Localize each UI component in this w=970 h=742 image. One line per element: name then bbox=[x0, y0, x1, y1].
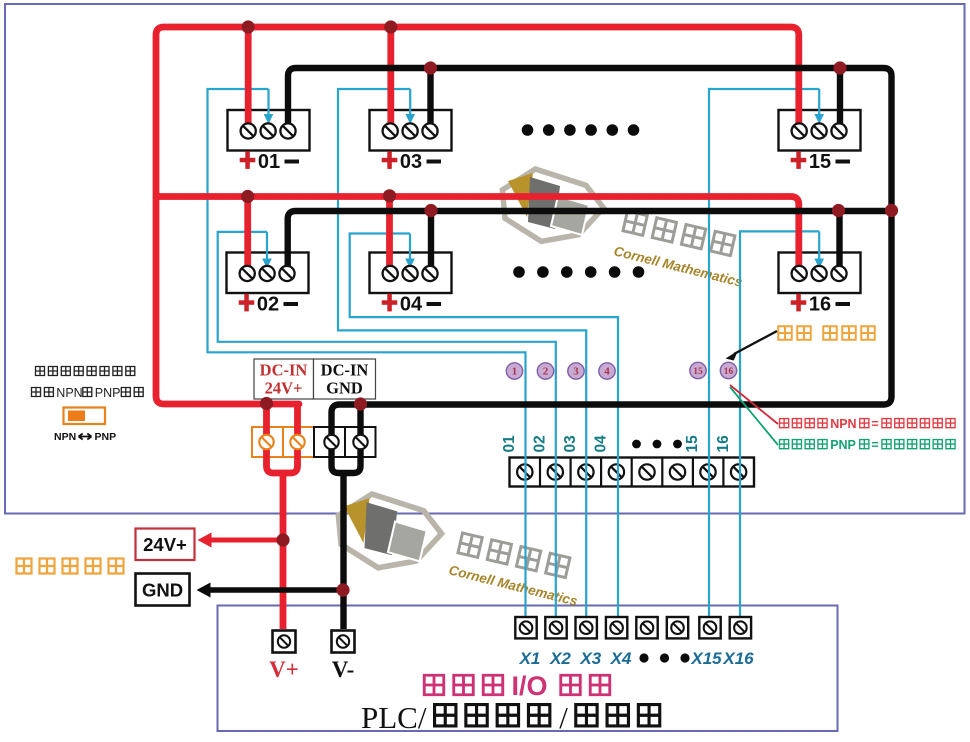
black drop sensor 15 bbox=[837, 68, 843, 128]
circled wire number 15 bbox=[690, 362, 706, 378]
strip ellipsis dots bbox=[632, 440, 641, 449]
svg-text:15: 15 bbox=[684, 435, 701, 453]
sensor 15 label + bbox=[791, 151, 807, 169]
svg-text:16: 16 bbox=[809, 294, 831, 316]
sensor 01 label minus bbox=[285, 160, 300, 164]
label: input indicator LED (orange) bbox=[777, 325, 875, 340]
svg-text:I/O: I/O bbox=[512, 671, 548, 701]
svg-text:01: 01 bbox=[258, 151, 280, 173]
sensor terminal block 01 outline bbox=[228, 110, 310, 151]
junction 24V+ tap to supply bbox=[276, 533, 289, 546]
junction GND bus / sensor 15 drop bbox=[833, 61, 846, 74]
GND box bbox=[136, 574, 190, 606]
red drop to sensor 02 bbox=[244, 197, 251, 271]
sensor 16 screw terminals (+ / signal / -) bbox=[792, 266, 847, 281]
junction +24V bus / sensor 01 drop bbox=[242, 20, 255, 33]
watermark text bottom: 康泰科技 bbox=[456, 531, 572, 579]
V+ supply terminal bbox=[273, 631, 296, 653]
sensor terminal block 02 outline bbox=[227, 253, 309, 294]
junction GND bus2 / sensor 16 drop bbox=[832, 204, 845, 217]
signal wire 02 bbox=[218, 232, 556, 617]
black wire down to V- bbox=[340, 471, 346, 629]
svg-text:04: 04 bbox=[400, 294, 423, 316]
svg-text:02: 02 bbox=[532, 435, 549, 452]
svg-text:3: 3 bbox=[573, 366, 579, 378]
note: switch selection line 1 bbox=[35, 366, 136, 376]
sensor 15 label minus bbox=[836, 160, 851, 164]
watermark logo (bottom) bbox=[338, 494, 441, 568]
sensor 04 label minus bbox=[427, 302, 442, 306]
PLC / industrial PC box outline bbox=[218, 606, 838, 732]
svg-text:Cornell Mathematics: Cornell Mathematics bbox=[447, 562, 579, 609]
svg-text:16: 16 bbox=[724, 367, 734, 377]
svg-text:V-: V- bbox=[332, 657, 355, 682]
svg-text:1: 1 bbox=[512, 366, 518, 378]
svg-text:4: 4 bbox=[604, 366, 610, 378]
label: connect switching power (orange) bbox=[15, 557, 124, 574]
signal wire 01 bbox=[208, 89, 526, 617]
terminal strip screw 02 bbox=[548, 464, 563, 479]
circled wire number 2 bbox=[537, 363, 553, 379]
sensor 01 screw terminals (+ / signal / -) bbox=[241, 123, 296, 138]
title: input type I/O module (magenta) bbox=[423, 671, 611, 701]
svg-text:GND: GND bbox=[326, 379, 363, 398]
arrow from LED label to wire bbox=[734, 331, 777, 354]
PLC input terminal X16 bbox=[730, 617, 751, 638]
circled wire number 3 bbox=[568, 363, 584, 379]
signal wire 16 arrow bbox=[818, 231, 820, 260]
red drop to sensor 01 bbox=[245, 27, 252, 128]
signal wire 15 arrow bbox=[818, 89, 820, 116]
circled wire number 1 bbox=[506, 363, 522, 379]
svg-text:2: 2 bbox=[543, 366, 549, 378]
sensor 01 label + bbox=[240, 151, 256, 169]
watermark text top: 康泰科技 bbox=[621, 209, 737, 257]
orange 24V block screw terminals bbox=[259, 435, 273, 449]
junction GND bus / sensor 03 drop bbox=[424, 61, 437, 74]
DC-IN 24V+ label box bbox=[254, 359, 314, 399]
sensor 02 label + bbox=[239, 294, 255, 312]
svg-text:16: 16 bbox=[715, 435, 732, 453]
svg-text:X15: X15 bbox=[690, 649, 722, 668]
ellipsis dots row 2 bbox=[513, 266, 525, 278]
pointer line red bbox=[730, 385, 778, 424]
signal wire 02 arrow bbox=[266, 232, 268, 261]
signal wire 04 bbox=[350, 234, 618, 617]
sensor 02 screw terminals (+ / signal / -) bbox=[240, 266, 295, 281]
junction DC-IN 24V+ node bbox=[260, 397, 273, 410]
black GND bus row2 bbox=[288, 211, 892, 271]
title: PLC / industrial board / MCU bbox=[361, 700, 661, 735]
svg-text:NPN: NPN bbox=[56, 386, 82, 400]
red drop to sensor 04 bbox=[386, 197, 393, 271]
sensor terminal block 03 outline bbox=[370, 110, 452, 151]
black DC-IN GND stub bbox=[357, 399, 363, 405]
circled wire number 4 bbox=[599, 363, 615, 379]
junction DC-IN GND node bbox=[354, 397, 367, 410]
note: switch selection line 2 bbox=[31, 386, 144, 400]
svg-text:=: = bbox=[871, 438, 878, 452]
svg-text:DC-IN: DC-IN bbox=[321, 361, 369, 380]
watermark logo (top) bbox=[502, 169, 603, 241]
svg-text:GND: GND bbox=[142, 580, 183, 601]
junction GND bus2 / sensor 04 drop bbox=[424, 204, 437, 217]
circled wire number 16 bbox=[720, 362, 736, 378]
junction +24V bus2 / sensor 02 drop bbox=[241, 190, 254, 203]
black GND terminal block bbox=[314, 427, 376, 457]
sensor 02 label minus bbox=[284, 302, 299, 306]
PLC input terminal n/a bbox=[636, 617, 657, 638]
svg-text:X2: X2 bbox=[549, 649, 571, 668]
signal wire 16 bbox=[740, 231, 819, 616]
svg-text:PLC/: PLC/ bbox=[361, 700, 427, 735]
svg-text:V+: V+ bbox=[269, 657, 299, 682]
DC-IN GND label box bbox=[314, 359, 376, 399]
module enclosure outline (outer blue box) bbox=[5, 4, 965, 514]
terminal strip screw 16 bbox=[731, 464, 746, 479]
red drop to sensor 03 bbox=[387, 27, 394, 128]
svg-text:X1: X1 bbox=[519, 649, 541, 668]
black GND bus (box01 drop, top bus, right vertical, bottom run, block U) bbox=[288, 68, 892, 473]
svg-text:01: 01 bbox=[501, 435, 518, 453]
sensor terminal block 16 outline bbox=[779, 253, 861, 294]
svg-text:04: 04 bbox=[593, 435, 610, 453]
sensor 03 label minus bbox=[427, 160, 442, 164]
svg-text:03: 03 bbox=[400, 151, 422, 173]
black arrow to GND box bbox=[209, 587, 343, 593]
PLC input terminal X2 bbox=[545, 617, 566, 638]
junction +24V bus / sensor 03 drop bbox=[384, 20, 397, 33]
svg-text:PNP: PNP bbox=[95, 431, 117, 443]
junction GND bus2 / right GND riser bbox=[885, 204, 898, 217]
svg-text:24V+: 24V+ bbox=[143, 534, 187, 555]
sensor terminal block 15 outline bbox=[779, 110, 861, 151]
svg-text:24V+: 24V+ bbox=[265, 379, 303, 398]
svg-text:=: = bbox=[871, 417, 878, 431]
black drop sensor 03 bbox=[427, 68, 433, 128]
orange 24V terminal block bbox=[252, 427, 314, 457]
PNP green note bbox=[779, 438, 956, 452]
black drop sensor 04 bbox=[428, 211, 434, 271]
svg-text:X16: X16 bbox=[722, 649, 754, 668]
black drop sensor 16 bbox=[836, 211, 842, 271]
24V+ box bbox=[136, 529, 195, 561]
junction GND tap to supply bbox=[336, 583, 349, 596]
terminal strip screw 15 bbox=[700, 464, 715, 479]
PLC input terminal X15 bbox=[699, 617, 720, 638]
red wire DC-IN 24V+ stub bbox=[263, 399, 270, 404]
sensor 04 label + bbox=[382, 294, 398, 312]
sensor 15 screw terminals (+ / signal / -) bbox=[792, 123, 847, 138]
red arrow to 24V+ box bbox=[210, 538, 283, 543]
svg-text:02: 02 bbox=[257, 294, 279, 316]
svg-text:15: 15 bbox=[809, 151, 831, 173]
terminal strip dividers bbox=[539, 458, 541, 487]
sensor 03 screw terminals (+ / signal / -) bbox=[383, 123, 438, 138]
svg-text:PNP: PNP bbox=[95, 386, 121, 400]
NPN red note bbox=[779, 417, 956, 431]
red wire down to V+ bbox=[280, 471, 287, 629]
signal wire 01 arrow bbox=[267, 89, 269, 116]
sensor 16 label + bbox=[791, 294, 807, 312]
svg-text:DC-IN: DC-IN bbox=[260, 361, 308, 380]
V- supply terminal bbox=[332, 631, 355, 653]
terminal strip screw 03 bbox=[578, 464, 593, 479]
terminal strip screw n/a bbox=[639, 464, 654, 479]
junction +24V bus2 / sensor 04 drop bbox=[383, 189, 396, 202]
svg-text:NPN: NPN bbox=[54, 431, 76, 443]
PLC input terminal X1 bbox=[515, 617, 536, 638]
ellipsis dots row 1 bbox=[522, 124, 534, 136]
signal wire 15 bbox=[709, 89, 819, 617]
sensor 03 label + bbox=[382, 151, 398, 169]
X label dots bbox=[639, 653, 648, 662]
PLC input terminal X3 bbox=[576, 617, 597, 638]
svg-text:NPN: NPN bbox=[830, 417, 856, 431]
sensor terminal block 04 outline bbox=[370, 253, 452, 294]
terminal strip screw 04 bbox=[609, 464, 624, 479]
terminal strip screw 01 bbox=[517, 464, 532, 479]
svg-text:03: 03 bbox=[562, 435, 579, 453]
red +24V bus row2 bbox=[156, 197, 799, 271]
svg-text:Cornell Mathematics: Cornell Mathematics bbox=[612, 243, 744, 290]
sensor 04 screw terminals (+ / signal / -) bbox=[383, 266, 438, 281]
svg-text:X4: X4 bbox=[610, 649, 632, 668]
red +24V bus (top loop: box15 drop, top bus, left vertical, bottom run) bbox=[156, 27, 799, 404]
NPN/PNP slide switch bbox=[64, 408, 106, 425]
svg-text:PNP: PNP bbox=[830, 438, 856, 452]
PLC input terminal X4 bbox=[606, 617, 627, 638]
svg-text:15: 15 bbox=[693, 367, 703, 377]
PLC input terminal n/a bbox=[667, 617, 688, 638]
black GND block screw terminals bbox=[324, 435, 338, 449]
sensor 16 label minus bbox=[836, 302, 851, 306]
terminal strip screw n/a bbox=[670, 464, 685, 479]
red wire through 24V terminal block (U) bbox=[267, 404, 298, 473]
svg-text:X3: X3 bbox=[579, 649, 601, 668]
svg-text:/: / bbox=[559, 700, 568, 735]
signal wire 03 bbox=[338, 89, 586, 617]
signal wire 04 arrow bbox=[409, 234, 411, 261]
pointer line green bbox=[730, 387, 778, 445]
terminal strip outline bbox=[510, 458, 755, 487]
signal wire 03 arrow bbox=[409, 89, 411, 116]
